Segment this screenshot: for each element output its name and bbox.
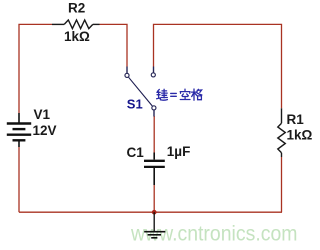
svg-text:R1: R1 [287,112,305,127]
resistor R2 [52,20,100,29]
svg-text:V1: V1 [34,107,51,122]
svg-text:1µF: 1µF [167,144,191,159]
S1 pin stub right [153,67,155,73]
ground [144,212,165,238]
node junction dot [152,210,157,215]
键 right part [161,89,167,100]
equals sign [171,93,177,96]
switch S1 [125,67,156,117]
S1 pin stub bottom [153,110,155,116]
svg-text:1kΩ: 1kΩ [287,128,313,143]
svg-text:C1: C1 [127,145,145,160]
svg-text:S1: S1 [127,97,143,112]
wire battery bottom down left rail [18,147,20,212]
wire C1 bottom to bottom rail junction [153,185,155,212]
空 [180,89,190,99]
wire R1 bottom to bottom rail [281,157,283,212]
capacitor C1 [144,153,165,186]
格 [192,89,202,100]
键 left radical [157,89,161,100]
wire switch right pin to R1 top [154,24,282,108]
svg-text:1kΩ: 1kΩ [64,29,90,44]
battery V1 [7,113,31,147]
wire R2 right to switch left pin [100,24,128,66]
resistor R1 [278,108,286,157]
S1 contact circle right [151,73,155,77]
wire switch bottom to C1 top [153,116,155,153]
wire battery top to R2 left [19,24,52,113]
svg-text:R2: R2 [68,1,85,16]
wire bottom rail [19,211,282,213]
S1 contact circle bottom [152,106,156,110]
svg-text:12V: 12V [33,123,57,138]
S1 key label: 键 = 空格 (drawn strokes, no CJK font) [157,89,202,100]
S1 lever [129,77,153,106]
S1 pin stub left [126,67,128,74]
S1 contact circle left [125,73,129,77]
